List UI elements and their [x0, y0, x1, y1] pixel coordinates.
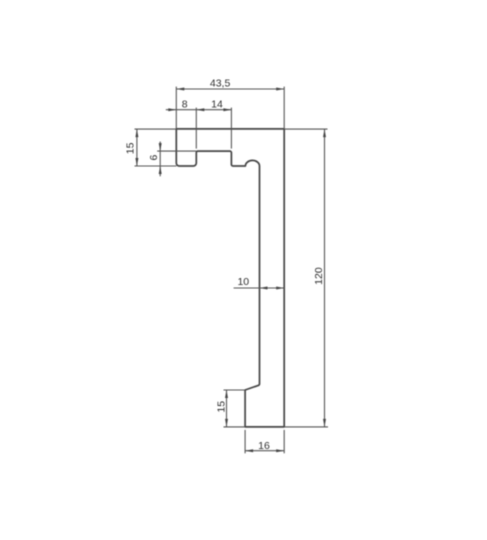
dimension line x=324.5 [324, 129, 326, 427]
arrow 120 top [323, 129, 326, 137]
arrow 43,5 left [176, 88, 184, 91]
dimension line x=226.5 [226, 390, 228, 427]
dimension 6 [157, 142, 196, 177]
arrow 10 right [276, 287, 284, 290]
extension line x=284.2 [283, 430, 285, 453]
svg-text:43,5: 43,5 [210, 78, 231, 90]
svg-text:16: 16 [258, 440, 270, 452]
arrow 14 right [223, 108, 231, 111]
svg-text:14: 14 [211, 99, 223, 111]
svg-text:120: 120 [313, 267, 325, 285]
dimension line y=288 with left leader tail [234, 287, 285, 289]
extension line x=196.3 [195, 108, 197, 149]
arrow 8 outside-left [168, 108, 176, 111]
dimension 120 [284, 129, 328, 427]
arrow 15b top [225, 390, 228, 398]
extension line x=245.1 [244, 430, 246, 453]
arrow 16 left [245, 449, 253, 452]
extension line left x=176.3 [175, 87, 177, 129]
dimension line x=159.5 [159, 142, 161, 177]
extension line right x=284.2 [283, 87, 285, 129]
svg-text:15: 15 [216, 401, 228, 413]
arrow 15 top [135, 129, 138, 137]
dimension 8 / 14 [166, 108, 232, 149]
svg-text:8: 8 [182, 99, 188, 111]
extension line top y=129.1 [284, 128, 327, 130]
dimension 10 [234, 287, 285, 289]
svg-text:6: 6 [148, 155, 160, 161]
dimension 16 [245, 430, 284, 453]
dimension line x=136.9 [136, 129, 138, 166]
extension line x=231.4 [230, 108, 232, 149]
extension line y=166 [135, 165, 177, 167]
arrow 6 bottom (points up) [159, 166, 162, 174]
svg-text:10: 10 [237, 276, 249, 288]
arrow 43,5 right [276, 88, 284, 91]
dimension 15 upper-left [135, 129, 177, 166]
svg-text:15: 15 [125, 142, 137, 154]
dimension line y=109.7 [166, 109, 232, 111]
extension line bottom y=426.9 [284, 426, 328, 428]
arrow 14 left [196, 108, 204, 111]
extension line y=426.9 [224, 426, 246, 428]
arrow 6 top (points down) [159, 143, 162, 151]
arrow 15b bottom [225, 419, 228, 427]
extension line y=151.1 [157, 150, 196, 152]
profile cross-section outline [176, 129, 284, 427]
arrow 120 bottom [323, 419, 326, 427]
dimension 15 lower-left [224, 390, 246, 427]
extension line y=390 [224, 389, 246, 391]
extension line y=129.1 [135, 128, 177, 130]
dimension line y=450.7 [245, 450, 284, 452]
dimension line y=89 [176, 88, 284, 90]
dimension 43,5 [176, 87, 284, 129]
arrow 15 bottom [135, 158, 138, 166]
arrow 16 right [276, 449, 284, 452]
arrow 10 left [260, 287, 268, 290]
